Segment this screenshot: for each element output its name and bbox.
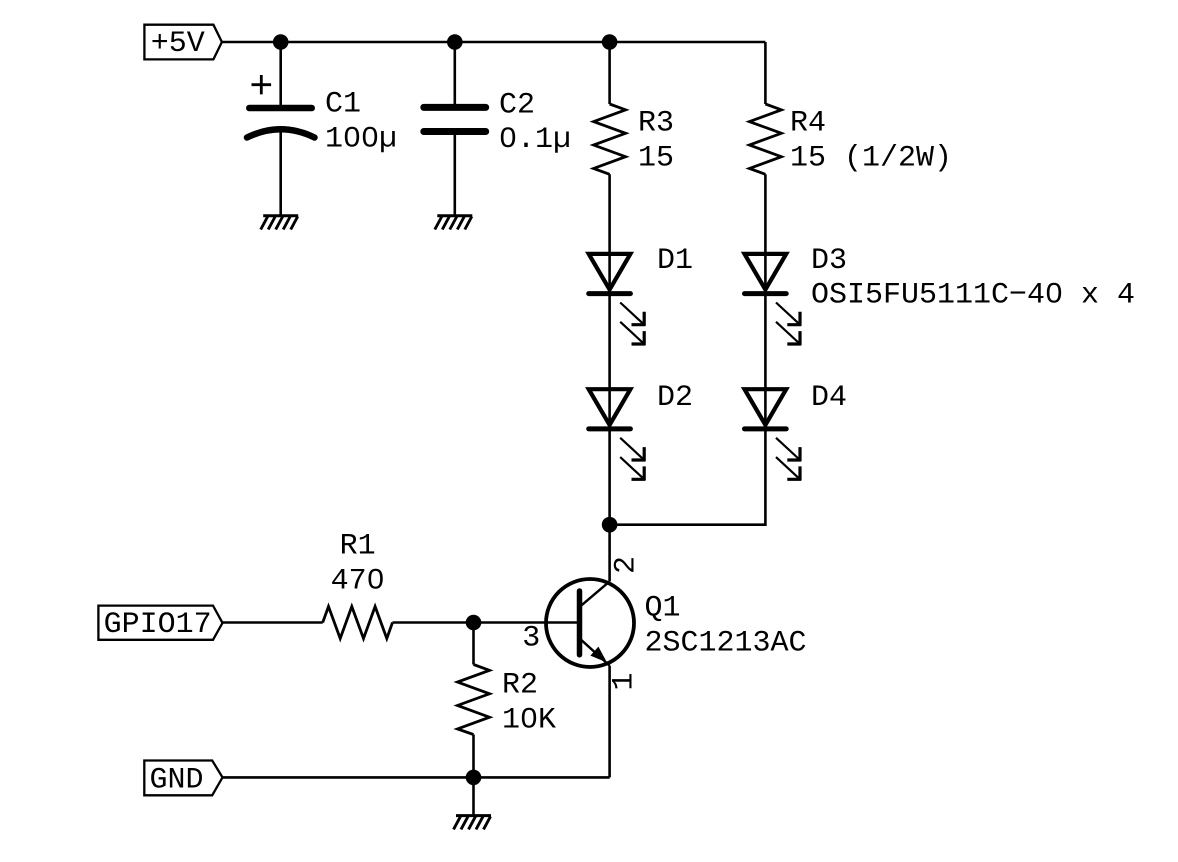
- svg-text:GND: GND: [150, 763, 204, 797]
- transistor Q1 emitter diagonal: [580, 639, 610, 666]
- node junction dot at GND/R2: [466, 770, 482, 786]
- ground symbol at bottom: [454, 816, 492, 830]
- svg-text:+5V: +5V: [151, 27, 205, 61]
- svg-text:15 (1/2W): 15 (1/2W): [790, 141, 952, 175]
- svg-text:D2: D2: [657, 381, 693, 415]
- LED D2 emission arrow 1: [620, 438, 645, 461]
- LED D2 cathode bar: [589, 426, 631, 431]
- wire ground stub below junction: [472, 777, 475, 815]
- svg-text:OSI5FU5111C−40 x 4: OSI5FU5111C−40 x 4: [811, 279, 1135, 313]
- wire R2 top stub: [472, 623, 475, 665]
- svg-text:D4: D4: [811, 381, 847, 415]
- svg-text:R4: R4: [790, 107, 826, 141]
- wire C1 top stub: [279, 42, 282, 105]
- LED D2 triangle: [589, 389, 631, 425]
- wire R2 bottom stub: [472, 735, 475, 778]
- LED D3 cathode bar: [745, 291, 787, 296]
- svg-text:2SC1213AC: 2SC1213AC: [645, 626, 807, 660]
- transistor Q1 base bar: [577, 591, 583, 655]
- LED D4 emission arrow 2: [776, 457, 801, 480]
- ground symbol under C1: [261, 216, 299, 230]
- net GPIO17 flag: [98, 606, 222, 640]
- wire R3 to bottom LED rail: [608, 174, 611, 524]
- svg-text:15: 15: [638, 141, 674, 175]
- svg-text:2: 2: [610, 556, 644, 574]
- resistor R2 zigzag: [458, 665, 490, 735]
- svg-text:R1: R1: [340, 529, 376, 563]
- LED D3 emission arrow 2: [776, 322, 801, 345]
- svg-text:D1: D1: [657, 244, 693, 278]
- node junction dot at R1/R2/base: [466, 615, 482, 631]
- wire GPIO17 to R1: [223, 621, 323, 624]
- LED D1 triangle: [589, 254, 631, 290]
- capacitor C1 top plate: [249, 105, 311, 112]
- wire GND rail: [223, 776, 610, 779]
- wire C2 bottom stub: [453, 135, 456, 216]
- wire R4 to bottom LED rail corner: [610, 174, 766, 524]
- resistor R1 zigzag: [323, 607, 393, 639]
- capacitor C2 top plate: [424, 104, 486, 111]
- wire C1 bottom stub: [279, 131, 282, 216]
- wire R4 top stub: [764, 42, 767, 104]
- svg-text:3: 3: [522, 622, 540, 656]
- transistor Q1 circle: [546, 579, 634, 667]
- LED D1 emission arrow 1: [620, 303, 645, 326]
- net +5V flag: [144, 25, 222, 60]
- wire R3 top stub: [608, 42, 611, 104]
- transistor Q1 emitter arrowhead: [590, 647, 607, 663]
- node junction dot at C2/+5V: [447, 34, 463, 50]
- svg-text:Q1: Q1: [645, 592, 681, 626]
- wire C2 top stub: [453, 42, 456, 104]
- wire emitter to ground rail: [608, 666, 611, 778]
- capacitor C1 curved bottom plate: [247, 129, 315, 137]
- ground symbol under C2: [435, 216, 473, 230]
- wire collector stub: [608, 525, 611, 582]
- node junction dot at R3/+5V: [602, 34, 618, 50]
- svg-text:100µ: 100µ: [325, 122, 397, 156]
- LED D1 cathode bar: [589, 291, 631, 296]
- capacitor C2 bottom plate: [424, 128, 486, 135]
- wire R1 to base: [393, 621, 578, 624]
- LED D2 emission arrow 2: [620, 457, 645, 480]
- node junction dot at C1/+5V: [273, 34, 289, 50]
- capacitor C1 polarity plus sign: [252, 75, 272, 94]
- svg-text:1: 1: [608, 672, 642, 690]
- svg-text:GPIO17: GPIO17: [104, 608, 212, 642]
- net GND flag: [144, 761, 222, 796]
- transistor Q1 collector diagonal: [580, 581, 610, 606]
- LED D1 emission arrow 2: [620, 322, 645, 345]
- LED D4 triangle: [745, 389, 787, 425]
- LED D3 triangle: [745, 254, 787, 290]
- resistor R4 zigzag: [749, 104, 781, 174]
- wire top +5V rail: [222, 41, 766, 44]
- resistor R3 zigzag: [594, 104, 626, 174]
- svg-text:R2: R2: [502, 669, 538, 703]
- svg-text:C1: C1: [325, 88, 361, 122]
- svg-text:D3: D3: [811, 244, 847, 278]
- node junction dot at LED bottom rail: [602, 517, 618, 533]
- zero glyph dot masks: [349, 133, 1057, 721]
- svg-text:C2: C2: [499, 88, 535, 122]
- LED D4 emission arrow 1: [776, 438, 801, 461]
- LED D3 emission arrow 1: [776, 303, 801, 326]
- svg-text:R3: R3: [638, 107, 674, 141]
- LED D4 cathode bar: [745, 426, 787, 431]
